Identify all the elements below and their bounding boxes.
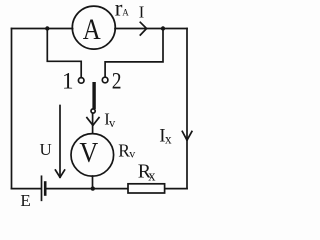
svg-text:x: x [148, 169, 156, 185]
svg-text:v: v [129, 147, 135, 161]
svg-text:v: v [109, 116, 116, 130]
svg-text:V: V [79, 136, 98, 169]
svg-text:U: U [40, 140, 52, 159]
svg-text:I: I [139, 2, 145, 21]
svg-text:x: x [165, 131, 172, 146]
svg-text:A: A [83, 12, 101, 46]
svg-text:2: 2 [112, 68, 122, 94]
svg-text:1: 1 [62, 69, 74, 94]
svg-text:A: A [122, 7, 129, 17]
svg-text:E: E [20, 191, 30, 210]
